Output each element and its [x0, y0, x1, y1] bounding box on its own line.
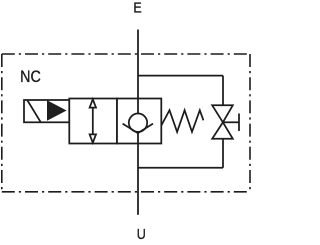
- shut-off valve upper triangle: [212, 105, 233, 122]
- wire: top branch horizontal: [138, 75, 223, 77]
- svg-text:E: E: [133, 0, 141, 16]
- component enclosure dash-dot border: right side: [249, 54, 251, 192]
- check valve seat left arm: [123, 124, 138, 134]
- component enclosure dash-dot border: left side: [1, 54, 3, 192]
- return spring: [161, 110, 203, 132]
- solenoid diagonal stroke: [28, 101, 41, 122]
- flow arrowhead up (hollow): [90, 99, 96, 107]
- wire: top branch vertical down to shut-off valve: [222, 76, 224, 106]
- wire: bottom branch vertical from shut-off valve: [222, 139, 224, 168]
- flow arrowhead down (hollow): [90, 134, 96, 142]
- wire: main line lower segment to U: [137, 132, 139, 214]
- valve position box 1 (open, double arrow): [69, 99, 117, 144]
- component enclosure dash-dot border: bottom side: [2, 191, 250, 193]
- component enclosure dash-dot border: top side: [2, 53, 250, 55]
- solenoid actuator box: [24, 100, 69, 122]
- wire: bottom branch horizontal back to U line: [138, 167, 223, 169]
- svg-text:U: U: [137, 226, 146, 242]
- shut-off valve handle bar: [238, 114, 240, 132]
- flow path double arrow shaft: [92, 107, 94, 136]
- wire: E line upper segment: [137, 30, 139, 114]
- solenoid filled triangle: [47, 100, 67, 121]
- svg-text:NC: NC: [20, 68, 41, 86]
- shut-off valve lower triangle: [212, 122, 233, 139]
- valve position box 2 (check valve position): [117, 99, 161, 144]
- check valve seat right arm: [138, 124, 153, 134]
- check valve ball (circle): [129, 114, 147, 132]
- shut-off valve stem: [223, 121, 239, 123]
